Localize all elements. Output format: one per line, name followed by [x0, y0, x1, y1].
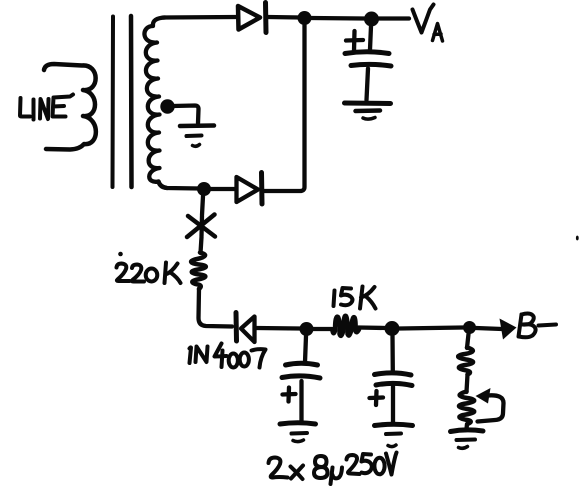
label VA [413, 5, 443, 42]
ground (center tap) [180, 126, 214, 147]
wire D1 cathode to node [268, 15, 301, 20]
diode D3 1N4007 [236, 313, 255, 343]
speck dot right [576, 236, 579, 241]
center tap node dot [160, 99, 174, 113]
label 220K [117, 263, 181, 284]
potentiometer VR1 [459, 388, 504, 424]
wire center tap to ground [173, 106, 199, 124]
wire node A down to lower rectifier output [264, 25, 305, 191]
ground (C2) [375, 424, 413, 446]
ground (C1) [280, 423, 316, 442]
capacitor CA plates [345, 52, 391, 66]
arrowhead B- [500, 319, 517, 340]
resistor R3 (bleeder) [458, 348, 473, 375]
capacitor C1 plates [282, 363, 320, 378]
wire node D to node E [400, 328, 464, 329]
wire R3 to potentiometer [467, 375, 468, 393]
wire node B to diode D2 [211, 187, 235, 191]
capacitor C1 plus sign [283, 388, 296, 402]
node junction dot D [385, 321, 400, 336]
ground (CA) [345, 103, 391, 119]
wire to VA label [379, 16, 409, 20]
diode D2 (bottom rectifier) [237, 173, 263, 205]
wire 220K to diode 1N4007 [199, 289, 233, 327]
capacitor C1 upper lead [305, 336, 306, 362]
ground (potentiometer) [451, 430, 484, 448]
node junction dot A [298, 11, 312, 25]
label 2x 8u 250V [269, 453, 397, 485]
X mark (connection point) [187, 215, 215, 238]
node junction dot E [463, 321, 476, 334]
capacitor CA lead [370, 26, 371, 50]
transformer T1 secondary winding [144, 18, 167, 189]
speck dot near 220K [118, 252, 123, 257]
node junction dot B [197, 182, 211, 196]
transformer core [113, 16, 132, 187]
node junction dot VA [364, 12, 379, 27]
capacitor CA plus sign [346, 31, 363, 51]
wire node E down to bleeder resistor [467, 334, 469, 348]
capacitor C1 lower lead [299, 381, 303, 421]
node junction dot C [300, 322, 314, 336]
capacitor CA lower lead [367, 69, 369, 101]
capacitor C2 lower lead [391, 387, 395, 424]
wire secondary bottom to node B [159, 182, 201, 189]
resistor R2 15K [333, 316, 360, 336]
wire node A to node VA [311, 16, 364, 21]
wire 15K to node D [359, 325, 387, 330]
wire X mark to resistor 220K [201, 237, 202, 253]
capacitor C2 plates [375, 373, 413, 386]
label 15K [334, 287, 376, 309]
transformer T1 primary winding [44, 64, 96, 150]
wire 1N4007 to node C [257, 326, 301, 331]
wire node C to resistor 15K [313, 327, 332, 331]
resistor R1 220K [191, 253, 206, 290]
wire node B down to X mark [202, 196, 203, 215]
wire node E to B- arrow [476, 328, 502, 329]
wire potentiometer to ground [464, 424, 469, 429]
label LINE [20, 95, 73, 120]
label 1N4007 [190, 344, 266, 368]
diode D1 (top rectifier) [238, 3, 266, 33]
capacitor C2 plus sign [370, 391, 384, 405]
label B- [519, 314, 557, 338]
wire secondary top to diode D1 [163, 15, 237, 20]
capacitor C2 upper lead [390, 336, 395, 371]
